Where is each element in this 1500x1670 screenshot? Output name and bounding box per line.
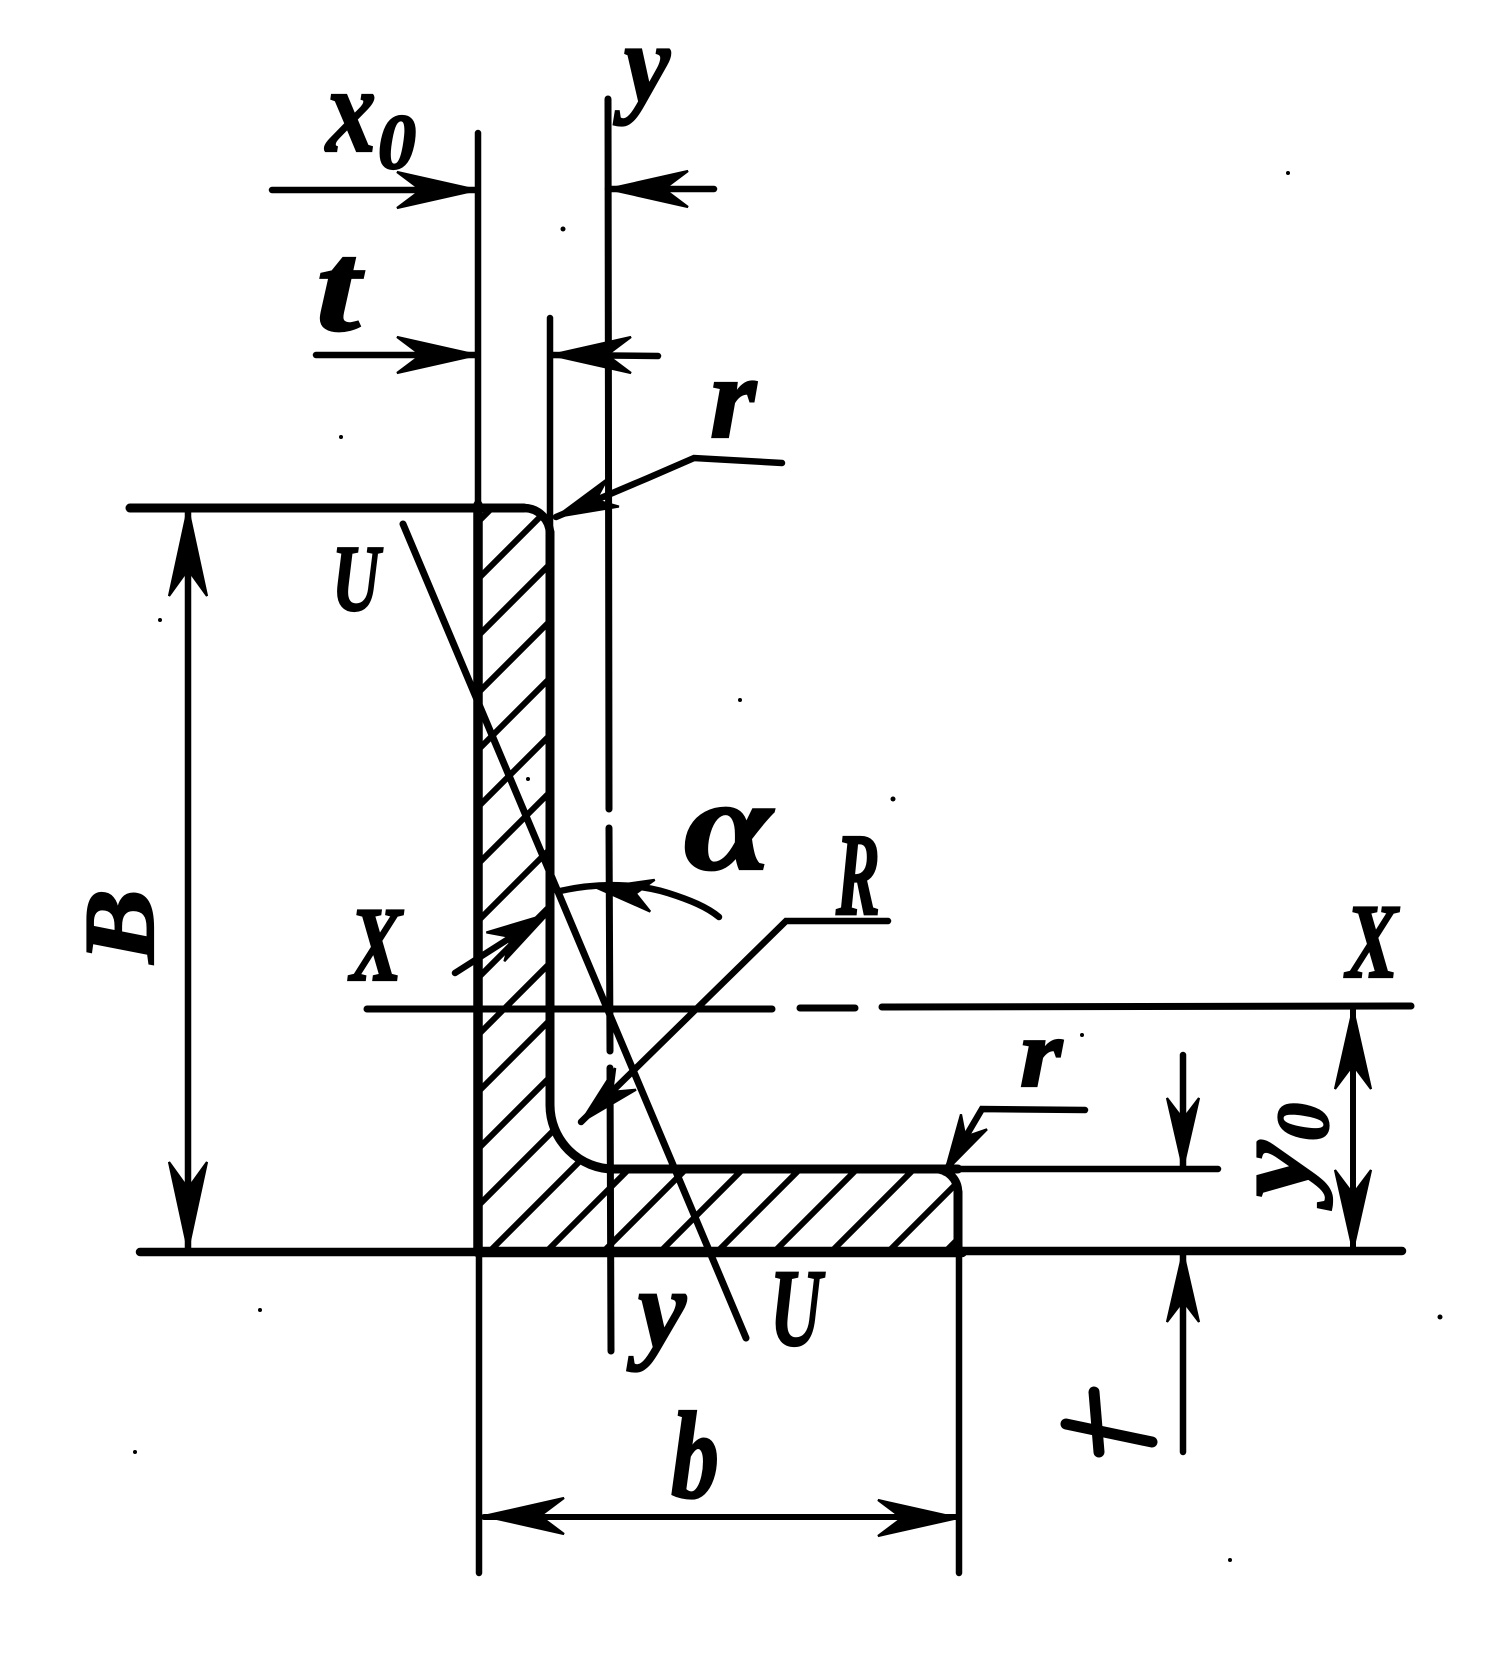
svg-text:U: U — [770, 1247, 826, 1369]
svg-text:X: X — [348, 886, 404, 1003]
fillet r at right leg end — [935, 1169, 958, 1192]
svg-text:X: X — [1344, 883, 1400, 1000]
dimension y0 (right, vertical) — [1350, 1009, 1356, 1250]
fillet R at inner corner — [550, 1105, 614, 1169]
hatching of cross-section — [0, 498, 1500, 1262]
svg-text:R: R — [835, 809, 880, 940]
arrow from X label to section — [455, 922, 535, 973]
svg-text:α: α — [684, 754, 775, 898]
dimension b (bottom) — [484, 1514, 958, 1520]
svg-text:0: 0 — [1263, 1103, 1345, 1141]
svg-text:B: B — [64, 889, 175, 964]
svg-text:0: 0 — [378, 98, 416, 185]
wire: inner edge of vertical leg + t extension above — [547, 318, 554, 532]
dimension x0 (top) — [272, 189, 714, 190]
angle alpha arc with arrow — [560, 885, 719, 917]
svg-text:b: b — [671, 1387, 719, 1524]
profile outline: angle cross-section — [130, 133, 1402, 1573]
axis y-y (vertical through centroid) — [608, 99, 611, 1351]
svg-text:t: t — [316, 216, 364, 358]
leader R (inner fillet) — [581, 921, 888, 1122]
fillet r at leg tip — [524, 508, 550, 534]
label t (bottom, hand strokes) — [1066, 1392, 1152, 1452]
wire: top edge of horizontal leg + extension right — [614, 1165, 958, 1174]
wire: outer left edge (with upper and lower extension) — [475, 133, 482, 505]
dimension t (top) — [316, 355, 658, 356]
axis X-X (dash-dot horizontal through centroid) — [367, 1006, 1411, 1009]
axis U-U (inclined principal axis) — [403, 524, 746, 1338]
svg-text:r: r — [710, 332, 757, 463]
dimension B (left, vertical) — [185, 508, 192, 1250]
scan specks — [133, 171, 1443, 1562]
leader r (top fillet) — [556, 458, 782, 517]
dimension t (bottom right) — [1180, 1055, 1187, 1452]
wire: top edge of vertical leg + B extension — [130, 504, 524, 513]
wire: bottom edge + extensions both sides — [140, 1248, 478, 1257]
leader r (right end fillet) — [945, 1109, 1085, 1172]
svg-text:x: x — [324, 43, 376, 178]
svg-text:r: r — [1020, 1000, 1063, 1108]
svg-text:U: U — [332, 527, 383, 631]
wire: right end edge of horizontal leg + lower extension — [954, 1192, 963, 1251]
